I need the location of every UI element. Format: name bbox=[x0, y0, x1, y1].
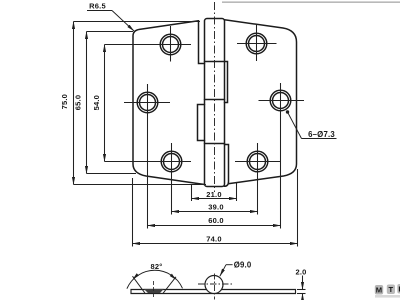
svg-text:T: T bbox=[388, 285, 393, 294]
svg-text:21.0: 21.0 bbox=[206, 190, 221, 199]
svg-text:2.0: 2.0 bbox=[295, 267, 306, 276]
svg-text:74.0: 74.0 bbox=[206, 234, 221, 243]
svg-text:R6.5: R6.5 bbox=[89, 2, 106, 11]
svg-text:60.0: 60.0 bbox=[208, 216, 223, 225]
svg-text:54.0: 54.0 bbox=[92, 95, 101, 110]
svg-text:82°: 82° bbox=[151, 262, 163, 271]
svg-text:39.0: 39.0 bbox=[208, 203, 223, 212]
svg-text:6–Ø7.3: 6–Ø7.3 bbox=[308, 130, 335, 139]
svg-text:65.0: 65.0 bbox=[74, 95, 83, 110]
svg-text:Ø9.0: Ø9.0 bbox=[234, 260, 252, 269]
svg-text:M: M bbox=[376, 286, 383, 295]
svg-text:75.0: 75.0 bbox=[60, 94, 69, 109]
